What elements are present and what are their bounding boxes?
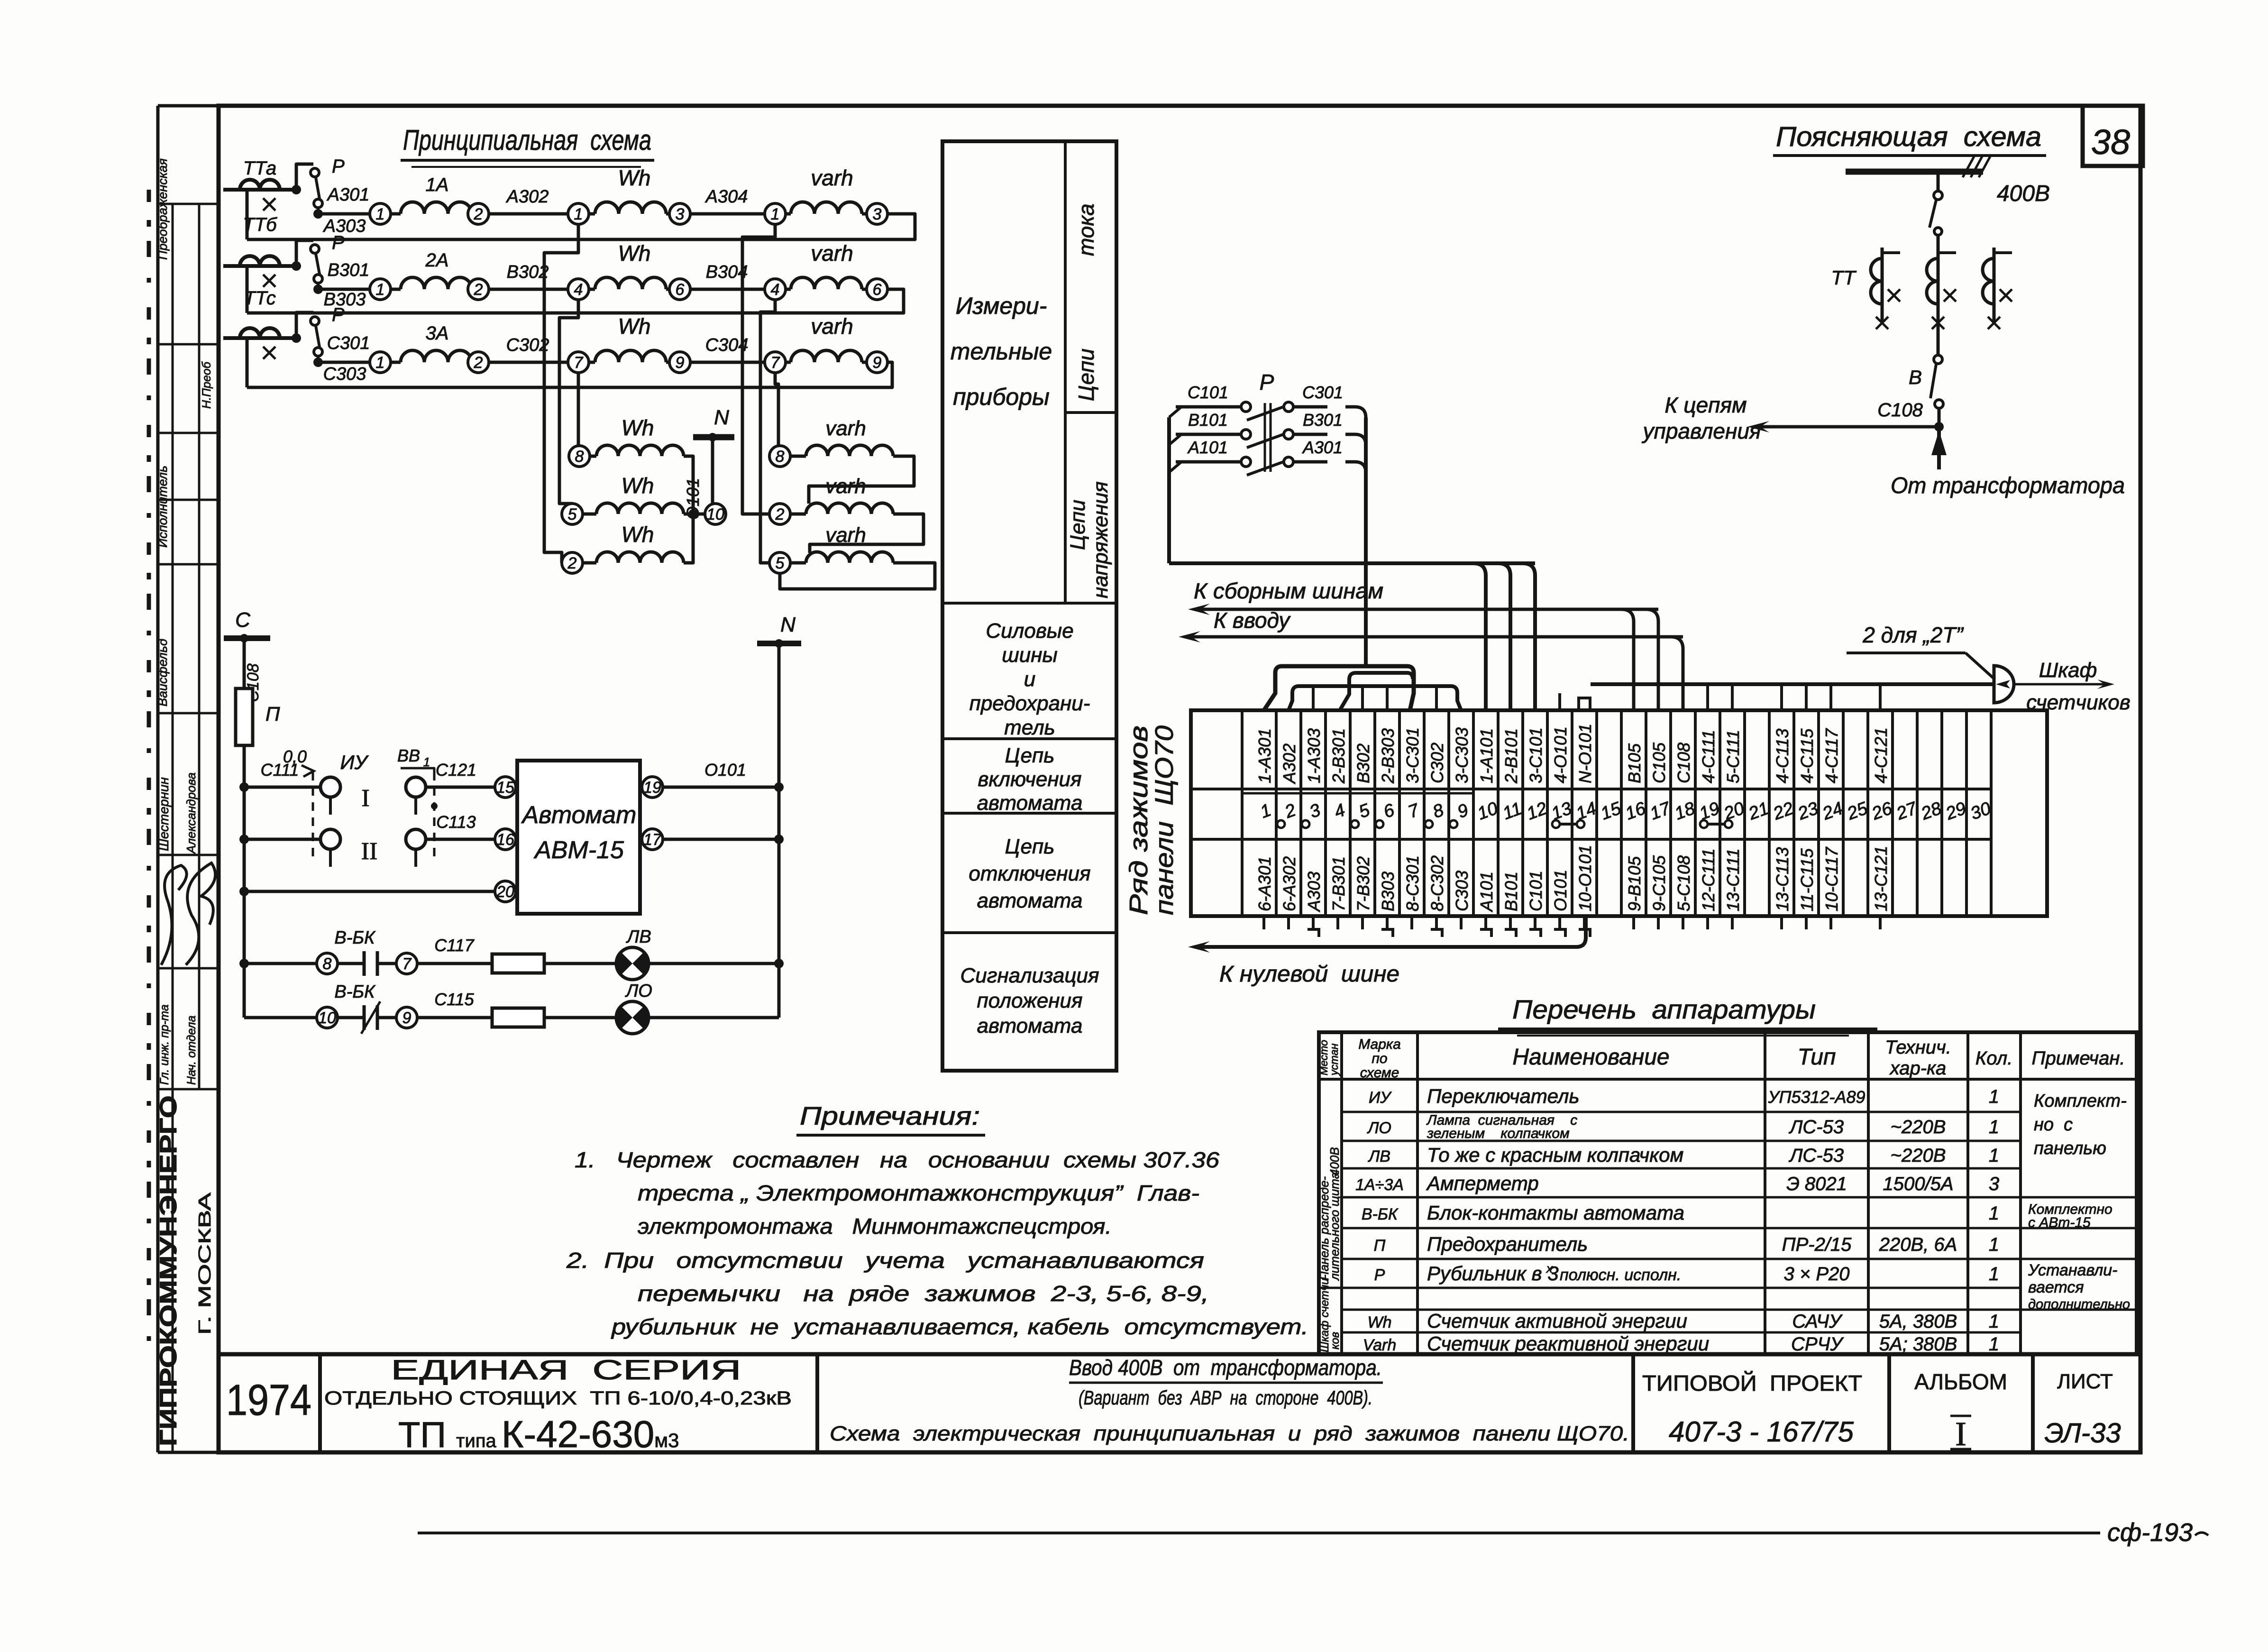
svg-text:Наименование: Наименование: [1512, 1045, 1669, 1070]
wire C117: [417, 962, 491, 965]
svg-text:8-С302: 8-С302: [1427, 855, 1447, 911]
svg-text:1: 1: [1989, 1334, 1999, 1355]
Wh block output wires to node 10: [684, 456, 693, 514]
svg-text:2-В301: 2-В301: [1329, 728, 1348, 784]
meter cabinet line: [1591, 682, 1994, 686]
svg-text:С303: С303: [323, 364, 366, 384]
wire В302: [489, 288, 568, 291]
equipment row line y=2345: [1342, 1111, 2021, 1113]
varh block feed wire phase A: [742, 224, 775, 514]
bottom rule: [418, 1532, 2100, 1534]
svg-text:2: 2: [474, 354, 483, 372]
svg-text:1: 1: [1989, 1311, 1999, 1332]
svg-text:Wh: Wh: [622, 522, 654, 547]
terminal 8 (signal): [317, 953, 338, 974]
svg-text:Wh: Wh: [618, 241, 651, 266]
Wh element feed wire phase B: [559, 300, 578, 514]
svg-text:13-С113: 13-С113: [1773, 847, 1792, 911]
svg-text:II: II: [361, 838, 378, 865]
svg-text:Varh: Varh: [1363, 1336, 1397, 1354]
terminal 2 (varh block): [769, 504, 790, 524]
svg-text:ЛВ: ЛВ: [625, 927, 651, 947]
switch P pole С101-С301: [1169, 407, 1181, 417]
legend divider тока/напряжения: [1065, 411, 1116, 414]
svg-text:I: I: [1955, 1415, 1966, 1453]
svg-text:напряжения: напряжения: [1089, 481, 1112, 598]
svg-text:9: 9: [402, 1009, 412, 1027]
svg-text:С108: С108: [1674, 743, 1693, 783]
svg-text:панели ЩО70: панели ЩО70: [1150, 725, 1179, 915]
svg-text:6: 6: [676, 281, 685, 299]
terminal 3 bottom stub: [1312, 916, 1315, 929]
svg-text:лительного щита: лительного щита: [1327, 1172, 1342, 1281]
return wire В303: [247, 289, 904, 313]
wire to terminal 20: [244, 890, 495, 893]
svg-text:16: 16: [496, 831, 514, 849]
wire C111: [244, 786, 320, 789]
svg-text:А304: А304: [705, 187, 748, 207]
terminal 10 bottom stub: [1484, 916, 1487, 929]
svg-text:ТП типа К-42-630м3: ТП типа К-42-630м3: [398, 1413, 679, 1455]
svg-text:1974: 1974: [226, 1376, 311, 1424]
svg-text:О101: О101: [1551, 870, 1570, 911]
terminal 19: [642, 777, 663, 798]
svg-text:20: 20: [496, 883, 514, 901]
Wh voltage coil: [590, 455, 596, 458]
legend divider row2: [942, 737, 1116, 740]
svg-text:предохрани-: предохрани-: [969, 692, 1090, 715]
terminal 1: [370, 279, 391, 300]
svg-text:2. При отсутствии учета: 2. При отсутствии учета устанавливаются: [566, 1248, 1204, 1273]
ammeter coil 2А: [391, 288, 401, 291]
equipment row line y=2716: [1342, 1287, 2021, 1289]
svg-text:Wh: Wh: [618, 314, 651, 339]
svg-text:9: 9: [676, 354, 685, 372]
CT ТТб phase B: [223, 264, 296, 268]
knife switch P phase A: [292, 185, 301, 194]
legend table frame: [942, 141, 1116, 1071]
svg-text:СРЧУ: СРЧУ: [1791, 1334, 1844, 1355]
CT ТТа phase A: [223, 188, 296, 192]
svg-text:Ряд зажимов: Ряд зажимов: [1125, 725, 1153, 915]
svg-text:включения: включения: [978, 768, 1081, 791]
svg-text:электромонтажа Минмонтажспец: электромонтажа Минмонтажспецстроя.: [638, 1214, 1112, 1239]
svg-text:Устанавли-: Устанавли-: [2028, 1261, 2117, 1279]
svg-text:управления: управления: [1642, 419, 1761, 443]
svg-text:приборы: приборы: [953, 384, 1050, 410]
terminal 10 foot: [1480, 929, 1491, 937]
switch ВВ1 contact upper: [406, 777, 426, 797]
feed arrow from transformer: [1937, 427, 1941, 469]
svg-text:треста „ Электромонтажконструк: треста „ Электромонтажконструкция” Глав-: [638, 1181, 1199, 1205]
svg-text:3: 3: [676, 205, 685, 223]
svg-text:2: 2: [567, 554, 577, 572]
svg-text:зеленым колпачком: зеленым колпачком: [1427, 1126, 1570, 1141]
svg-text:Рубильник в 3: Рубильник в 3: [1427, 1262, 1559, 1285]
svg-text:2: 2: [474, 205, 483, 223]
varh voltage coil: [790, 561, 806, 565]
svg-text:1: 1: [1989, 1203, 1999, 1224]
svg-text:1: 1: [771, 205, 780, 223]
svg-text:автомата: автомата: [977, 889, 1083, 912]
svg-text:С105: С105: [1649, 742, 1669, 783]
svg-text:ков: ков: [1329, 1332, 1342, 1349]
Wh element feed wire phase A: [544, 224, 578, 563]
svg-text:9-В105: 9-В105: [1625, 856, 1644, 911]
svg-text:4-С121: 4-С121: [1871, 727, 1891, 783]
terminal 20: [495, 881, 516, 902]
neutral N tap (upper): [693, 434, 734, 441]
svg-text:2-В101: 2-В101: [1501, 728, 1521, 784]
svg-text:1: 1: [574, 205, 583, 223]
stub terminal 19 to cabinet line: [1706, 684, 1709, 710]
svg-text:схеме: схеме: [1360, 1065, 1399, 1081]
terminal 14 foot: [1579, 929, 1590, 937]
svg-text:ТТа: ТТа: [243, 158, 276, 179]
wire C108 to control circuits: [1754, 425, 1939, 429]
legend divider row1: [942, 602, 1116, 605]
svg-text:тель: тель: [1004, 716, 1055, 739]
svg-text:11-С115: 11-С115: [1797, 848, 1817, 911]
return wire С303: [247, 362, 892, 387]
Wh meter current coil: [589, 361, 595, 364]
wire to contact 8: [244, 962, 317, 965]
left margin column outer line: [156, 106, 160, 1452]
stub terminal 24 to cabinet line: [1829, 684, 1832, 710]
svg-text:2 для „2Т”: 2 для „2Т”: [1862, 623, 1964, 647]
terminal 9: [867, 352, 887, 373]
binding marks on paper edge: [147, 190, 151, 1356]
wire C121: [426, 786, 495, 789]
svg-text:С113: С113: [436, 812, 476, 832]
svg-text:Шестернин: Шестернин: [156, 777, 171, 851]
svg-text:9: 9: [873, 354, 882, 372]
svg-text:4-О101: 4-О101: [1551, 726, 1570, 783]
jumper 19-20: [1700, 820, 1708, 828]
terminal 6 link circle: [1376, 820, 1383, 828]
terminal 16 bottom stub: [1632, 916, 1635, 929]
Wh voltage coil: [583, 513, 596, 516]
terminal 4 bottom stub: [1336, 916, 1339, 929]
terminal 19 bottom stub: [1706, 916, 1709, 929]
svg-text:varh: varh: [811, 165, 853, 190]
svg-text:устан: устан: [1328, 1043, 1340, 1076]
terminal 11 bottom stub: [1509, 916, 1512, 929]
svg-text:А302: А302: [506, 187, 549, 207]
svg-text:Перечень аппаратуры: Перечень аппаратуры: [1512, 994, 1816, 1024]
svg-text:Тип: Тип: [1798, 1045, 1836, 1070]
block contact В-БК lower: [338, 1016, 364, 1019]
svg-text:шины: шины: [1002, 643, 1058, 667]
svg-text:ПР-2/15: ПР-2/15: [1782, 1234, 1852, 1255]
svg-text:От трансформатора: От трансформатора: [1891, 473, 2125, 498]
wire А302: [489, 212, 568, 216]
terminal 14 bottom stub: [1583, 916, 1586, 929]
svg-text:3 × Р20: 3 × Р20: [1783, 1264, 1849, 1285]
svg-text:5: 5: [568, 505, 577, 523]
strip band line top: [1191, 788, 1991, 790]
svg-text:Р: Р: [1260, 370, 1274, 395]
terminal 6: [669, 279, 690, 300]
svg-text:В-БК: В-БК: [334, 982, 376, 1002]
svg-text:То же с красным колпачком: То же с красным колпачком: [1427, 1144, 1683, 1166]
svg-text:ИУ: ИУ: [340, 751, 369, 773]
svg-text:ЛС-53: ЛС-53: [1788, 1117, 1844, 1138]
svg-text:хар-ка: хар-ка: [1889, 1058, 1947, 1079]
svg-text:Амперметр: Амперметр: [1426, 1172, 1539, 1194]
terminal 9 bottom stub: [1460, 916, 1463, 929]
fuse П: [236, 688, 253, 745]
svg-text:ЛИСТ: ЛИСТ: [2057, 1370, 2113, 1393]
terminal 9 (signal): [396, 1007, 417, 1028]
svg-text:1: 1: [1989, 1264, 1999, 1285]
svg-text:В101: В101: [1501, 872, 1521, 911]
svg-text:П: П: [265, 703, 280, 725]
svg-text:счетчиков: счетчиков: [2026, 691, 2130, 714]
svg-text:ВВ: ВВ: [397, 746, 420, 765]
terminal 8 foot: [1431, 929, 1442, 937]
svg-text:6-А301: 6-А301: [1255, 856, 1274, 911]
ВВ1 linkage dashed: [433, 772, 436, 861]
svg-text:ГИПРОКОММУНЭНЕРГО: ГИПРОКОММУНЭНЕРГО: [155, 1095, 182, 1446]
svg-text:ТИПОВОЙ ПРОЕКТ: ТИПОВОЙ ПРОЕКТ: [1642, 1371, 1862, 1395]
400V busbar: [1846, 169, 1983, 175]
drop to terminal 18: [1671, 637, 1683, 710]
lamp ЛО: [616, 1001, 649, 1034]
terminal 17: [642, 829, 663, 850]
wire А301: [318, 212, 370, 216]
svg-text:10: 10: [318, 1009, 336, 1027]
cabinet line continues: [2014, 683, 2109, 686]
svg-text:ТТб: ТТб: [243, 214, 277, 235]
equipment row line y=2525: [1342, 1196, 2021, 1199]
neutral N tap (lower): [757, 641, 801, 646]
svg-text:1-А101: 1-А101: [1477, 728, 1496, 783]
svg-text:С121: С121: [436, 760, 476, 780]
svg-text:вается: вается: [2028, 1278, 2084, 1296]
svg-text:1-А301: 1-А301: [1255, 728, 1274, 783]
strip inner verticals: [1241, 710, 1244, 916]
svg-text:УП5312-А89: УП5312-А89: [1768, 1087, 1866, 1107]
svg-text:N: N: [714, 406, 729, 429]
svg-text:Исполнитель: Исполнитель: [155, 466, 170, 548]
wire C113: [426, 838, 495, 841]
svg-text:ЛС-53: ЛС-53: [1788, 1145, 1844, 1166]
terminal 24 bottom stub: [1829, 916, 1832, 929]
legend col divider: [1064, 141, 1067, 603]
terminal 3: [669, 203, 690, 224]
bundle umbrella tier 1 (to terminals 1,7): [1264, 666, 1414, 710]
svg-text:1. Чертеж составлен на: 1. Чертеж составлен на основании схемы 3…: [575, 1147, 1219, 1172]
svg-text:2-В303: 2-В303: [1378, 728, 1398, 784]
resistor ЛО circuit: [492, 1008, 544, 1027]
current transformer at x=4088: [1937, 248, 1940, 322]
svg-text:4: 4: [574, 281, 583, 299]
svg-text:А301: А301: [1302, 438, 1343, 457]
svg-text:Wh: Wh: [618, 165, 651, 190]
terminal 13 bottom stub: [1558, 916, 1561, 929]
svg-text:ИУ: ИУ: [1369, 1089, 1392, 1107]
terminal 7: [765, 352, 786, 373]
svg-text:АЛЬБОМ: АЛЬБОМ: [1914, 1369, 2007, 1394]
svg-text:10: 10: [706, 505, 724, 523]
svg-text:8-С301: 8-С301: [1403, 855, 1422, 911]
svg-text:(Вариант без АВР на сторон: (Вариант без АВР на стороне 400В).: [1079, 1386, 1372, 1409]
equipment row line y=2810: [1342, 1331, 2021, 1334]
terminal 9: [669, 352, 690, 373]
ammeter coil 1А: [391, 212, 401, 216]
svg-text:Комплект-: Комплект-: [2034, 1091, 2127, 1111]
svg-text:С101: С101: [1188, 383, 1228, 402]
wire C115: [417, 1016, 491, 1019]
bus C tap: [224, 635, 270, 641]
svg-text:5А, 380В: 5А, 380В: [1879, 1311, 1957, 1332]
svg-text:7-В301: 7-В301: [1329, 856, 1348, 911]
svg-text:1-А303: 1-А303: [1304, 728, 1324, 783]
svg-text:407-3 - 167/75: 407-3 - 167/75: [1669, 1416, 1854, 1448]
svg-text:7: 7: [402, 955, 412, 973]
svg-text:Нач. отдела: Нач. отдела: [185, 1015, 198, 1085]
terminal 3 foot: [1308, 929, 1319, 937]
svg-text:15: 15: [496, 779, 514, 797]
svg-text:N-О101: N-О101: [1575, 724, 1595, 783]
varh voltage coil: [790, 513, 806, 516]
line К вводу: [1185, 635, 1683, 639]
svg-text:отключения: отключения: [969, 862, 1090, 885]
svg-text:ЛО: ЛО: [1367, 1119, 1391, 1137]
svg-text:~220В: ~220В: [1891, 1117, 1946, 1138]
terminal 12 bottom stub: [1534, 916, 1536, 929]
terminal 6 bottom stub: [1386, 916, 1389, 929]
svg-text:5-С108: 5-С108: [1674, 855, 1693, 911]
svg-text:Ввод 400В от трансформатора.: Ввод 400В от трансформатора.: [1069, 1355, 1382, 1380]
svg-text:В-БК: В-БК: [334, 928, 376, 948]
signature squiggle 2: [186, 863, 215, 965]
Wh meter current coil: [589, 212, 595, 216]
terminal 22 bottom stub: [1780, 916, 1783, 929]
svg-text:13-С121: 13-С121: [1871, 846, 1891, 911]
legend divider row4: [942, 931, 1116, 934]
terminal 2 bottom stub: [1287, 916, 1290, 929]
current transformer at x=3970: [1881, 248, 1884, 322]
terminal 17 bottom stub: [1657, 916, 1660, 929]
svg-text:220В, 6А: 220В, 6А: [1879, 1234, 1957, 1255]
wire В301: [318, 288, 370, 291]
stub terminal 22 to cabinet line: [1780, 684, 1783, 710]
wire to terminal 10: [1473, 563, 1486, 710]
svg-text:Гл. инж. пр-та: Гл. инж. пр-та: [158, 1004, 171, 1085]
bundle bottom run: [1169, 561, 1535, 565]
stub terminal 14 with hook: [1579, 698, 1590, 710]
svg-text:12-С111: 12-С111: [1699, 848, 1718, 911]
wire lamp ЛО to N: [649, 1016, 779, 1019]
terminal 16: [495, 829, 516, 850]
svg-text:рубильник не устанавливается: рубильник не устанавливается, кабель отс…: [611, 1314, 1308, 1339]
terminal strip outer box: [1191, 710, 2047, 916]
svg-text:~220В: ~220В: [1891, 1145, 1946, 1166]
equipment row line y=2590: [1342, 1227, 2021, 1230]
line К нулевой шине: [1195, 916, 1586, 947]
stub terminal 20 to cabinet line: [1731, 684, 1734, 710]
svg-text:Схема электрическая принципи: Схема электрическая принципиальная и ряд…: [830, 1422, 1629, 1445]
wire А304: [690, 212, 765, 216]
terminal 18 bottom stub: [1682, 916, 1684, 929]
svg-text:Блок-контакты автомата: Блок-контакты автомата: [1427, 1202, 1684, 1224]
svg-text:К сборным шинам: К сборным шинам: [1194, 578, 1383, 603]
Wh meter current coil: [589, 288, 595, 291]
drop to terminal 16: [1621, 609, 1634, 710]
bundle stubs terminals 3,5,6,8: [1312, 686, 1315, 710]
svg-text:19: 19: [643, 779, 661, 797]
svg-text:А302: А302: [1280, 743, 1299, 784]
svg-text:сф-193: сф-193: [2107, 1518, 2193, 1547]
svg-text:Автомат: Автомат: [521, 801, 637, 829]
svg-text:N: N: [780, 613, 796, 636]
CT ТТс phase C: [223, 336, 296, 340]
svg-text:автомата: автомата: [977, 1014, 1083, 1037]
varh block feed wire phase B: [760, 300, 775, 563]
jumper 13-14: [1552, 820, 1560, 828]
svg-text:Счетчик реактивной энергии: Счетчик реактивной энергии: [1427, 1332, 1709, 1355]
svg-text:3А: 3А: [426, 323, 449, 344]
switch P pole В101-В301: [1169, 434, 1181, 445]
Wh element feed wire phase C: [577, 373, 580, 446]
terminal 2: [468, 352, 489, 373]
svg-text:5А; 380В: 5А; 380В: [1879, 1334, 1957, 1355]
svg-text:1А÷3А: 1А÷3А: [1355, 1176, 1404, 1194]
svg-text:Счетчик активной энергии: Счетчик активной энергии: [1427, 1310, 1687, 1332]
svg-text:панелью: панелью: [2034, 1138, 2106, 1158]
terminal 13 foot: [1554, 929, 1565, 937]
svg-text:Н.Преоб: Н.Преоб: [200, 361, 213, 409]
svg-text:1: 1: [1989, 1117, 1999, 1138]
svg-text:С301: С301: [327, 333, 370, 353]
stub terminal 26 to cabinet line: [1879, 684, 1882, 710]
varh voltage coil: [790, 455, 806, 458]
svg-text:2А: 2А: [425, 250, 449, 271]
место column divider: [1319, 1287, 1342, 1289]
terminal 5 link circle: [1351, 820, 1359, 828]
terminal 1: [370, 352, 391, 373]
svg-text:Поясняющая схема: Поясняющая схема: [1776, 121, 2041, 152]
svg-text:Примечан.: Примечан.: [2032, 1048, 2125, 1069]
bus C vertical wire: [243, 638, 246, 1018]
svg-text:П: П: [1374, 1237, 1386, 1255]
strip band line bottom: [1191, 838, 1991, 841]
switch P bundle left bus: [1167, 417, 1171, 563]
varh block loop wire 3: [780, 563, 935, 589]
svg-text:Цепь: Цепь: [1005, 835, 1055, 858]
wire С302: [489, 361, 568, 364]
svg-text:2: 2: [474, 281, 483, 299]
svg-text:6-А302: 6-А302: [1280, 856, 1299, 911]
page number box 38: [2083, 106, 2143, 166]
svg-text:Сигнализация: Сигнализация: [960, 964, 1099, 987]
wire С301: [318, 361, 370, 364]
svg-text:А101: А101: [1477, 872, 1496, 912]
busbar hatch marks: [1963, 156, 1990, 177]
svg-text:1500/5А: 1500/5А: [1883, 1174, 1953, 1194]
svg-text:4-С111: 4-С111: [1699, 730, 1718, 783]
equipment row line y=2762: [1342, 1309, 2021, 1311]
wire to contact 10: [244, 1016, 317, 1019]
svg-text:4-С113: 4-С113: [1773, 729, 1792, 783]
equipment row line y=2464: [1342, 1167, 2021, 1170]
terminal 3 link circle: [1302, 820, 1309, 828]
svg-text:8: 8: [575, 448, 584, 466]
terminal 12 foot: [1529, 929, 1541, 937]
svg-text:Предохранитель: Предохранитель: [1427, 1233, 1588, 1255]
